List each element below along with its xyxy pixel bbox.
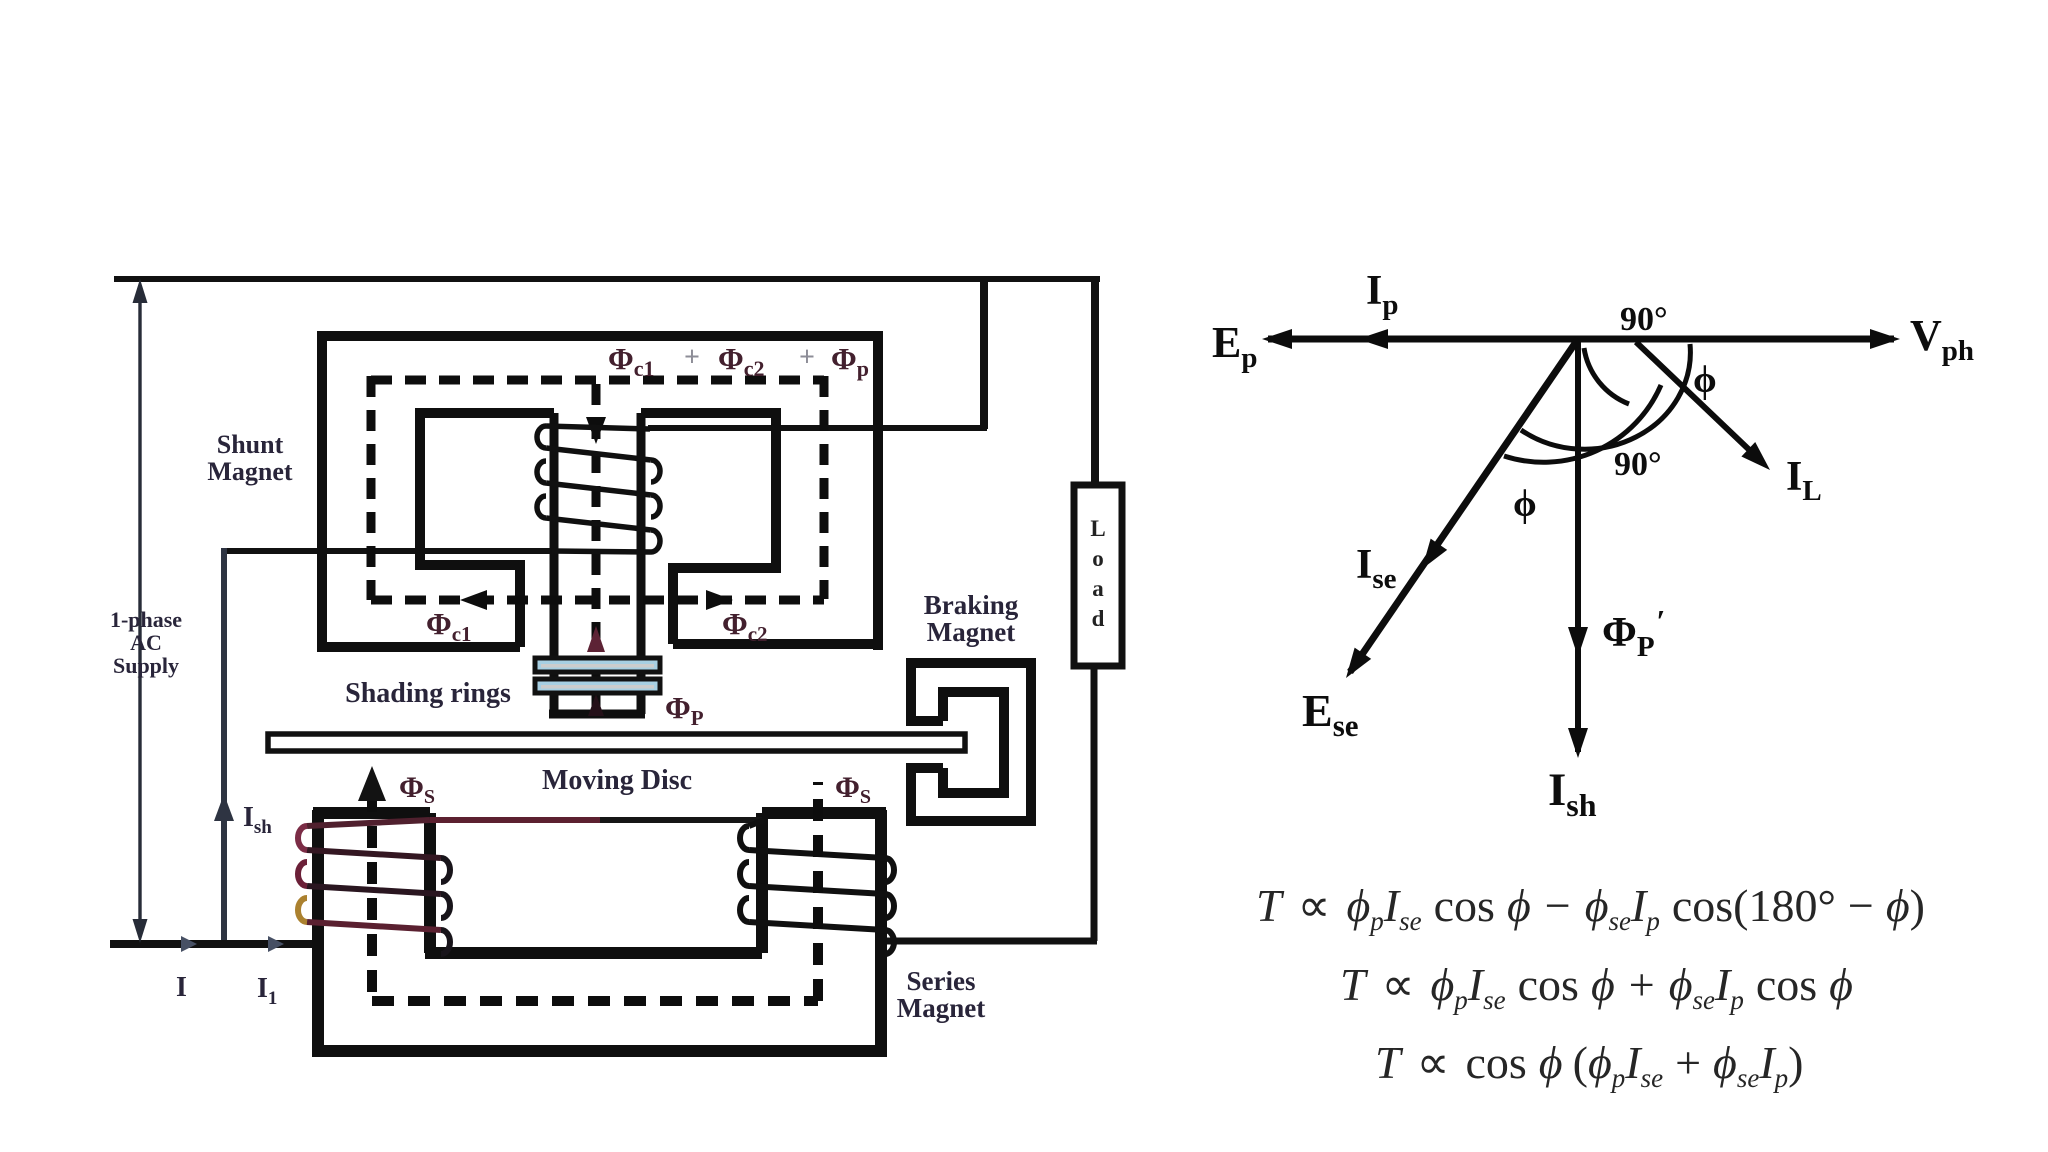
series magnet window right edge — [756, 813, 768, 953]
wire load bottom horizontal to series coil — [877, 938, 1097, 945]
svg-text:Shunt: Shunt — [217, 430, 284, 459]
shunt magnet right window — [641, 413, 776, 568]
svg-text:Shading rings: Shading rings — [345, 678, 511, 709]
shunt magnet central limb right edge — [637, 413, 646, 714]
shunt magnet left window — [420, 413, 554, 565]
svg-text:Ep: Ep — [1212, 318, 1258, 374]
shading ring lower — [535, 679, 660, 693]
arrow Ish on shunt branch — [214, 794, 234, 821]
SERIES COIL LEFT — [298, 820, 450, 954]
arrow Ep — [1262, 329, 1292, 349]
braking magnet outer core — [911, 663, 1031, 821]
phasor angle arc outer (Vph to Ise) — [1521, 344, 1690, 449]
svg-text:Vph: Vph — [1910, 311, 1974, 367]
svg-text:Magnet: Magnet — [897, 993, 985, 1023]
svg-text:ΦP′: ΦP′ — [1602, 603, 1666, 663]
svg-text:d: d — [1092, 606, 1105, 631]
shunt magnet outer core left/top/right — [322, 336, 878, 651]
series coil right right-arcs — [885, 858, 894, 882]
svg-text:90°: 90° — [1614, 446, 1662, 483]
svg-text:Φp: Φp — [831, 341, 869, 381]
phasor vertical phi_p' / Ish — [1575, 341, 1581, 752]
series magnet window bottom edge — [425, 947, 762, 959]
arrow I1 on bottom bus — [268, 936, 284, 952]
series magnet left limb top — [313, 807, 430, 819]
arrow flux phi_p down — [586, 417, 606, 444]
svg-text:IL: IL — [1786, 454, 1822, 507]
shunt magnet left window notch — [515, 560, 525, 647]
arrow IL — [1741, 442, 1777, 477]
shunt magnet outer core bottom-left segment — [317, 642, 520, 652]
svg-text:Magnet: Magnet — [927, 617, 1015, 647]
svg-text:T∝cosϕ(ϕpIse+ϕseIp): T∝cosϕ(ϕpIse+ϕseIp) — [1375, 1037, 1804, 1093]
flux path bottom dashed horizontal — [371, 596, 824, 605]
phasor angle arc inner (IL to Ise) — [1504, 385, 1661, 462]
shunt magnet outer core bottom-right segment — [673, 639, 883, 649]
svg-text:I1: I1 — [257, 973, 277, 1009]
moving disc — [268, 734, 965, 751]
svg-text:Ish: Ish — [243, 802, 272, 838]
TORQUE EQUATIONS — [1256, 880, 1925, 1093]
arrow flux phi_c1 (left) — [460, 590, 487, 610]
wire shunt branch horizontal — [222, 548, 552, 554]
svg-text:Φc1: Φc1 — [426, 606, 472, 646]
pressure coil diagonals — [546, 426, 650, 429]
svg-text:Ish: Ish — [1548, 764, 1597, 823]
arrow Ish down — [1568, 728, 1588, 758]
wire bottom supply bus — [110, 940, 322, 948]
series coil left right-arcs — [441, 858, 450, 882]
svg-text:a: a — [1092, 576, 1104, 601]
arrow phi_p' down — [1568, 627, 1588, 657]
shading ring upper — [535, 658, 660, 672]
braking magnet slot stubs — [906, 716, 943, 726]
svg-text:Supply: Supply — [113, 653, 179, 678]
shunt magnet pole face bottom bar — [549, 710, 645, 719]
wire top supply bus — [114, 276, 1100, 282]
svg-text:ϕ: ϕ — [1513, 483, 1537, 525]
svg-text:Φc2: Φc2 — [718, 341, 764, 381]
PRESSURE COIL on central limb — [537, 426, 660, 552]
SHADING RINGS — [535, 658, 660, 693]
arrow flux up below pole — [588, 694, 604, 716]
phasor Ise / Ese line — [1350, 339, 1578, 672]
svg-text:+: + — [799, 342, 815, 373]
svg-text:o: o — [1092, 546, 1104, 571]
SERIES MAGNET — [313, 810, 886, 1051]
LEFT DIAGRAM TEXT LABELS — [110, 430, 1019, 1023]
svg-text:Magnet: Magnet — [207, 457, 293, 486]
arrow Ese — [1338, 648, 1371, 684]
series magnet outer core — [318, 810, 881, 1051]
flux path right dashed vertical — [820, 376, 829, 599]
svg-text:Braking: Braking — [924, 590, 1019, 620]
wire drop from top bus to pressure coil — [980, 276, 988, 429]
flux path phi_p central dashed vertical — [592, 384, 601, 712]
phasor horizontal axis Ep-Vph — [1268, 336, 1894, 343]
svg-text:AC: AC — [130, 630, 162, 655]
SERIES COIL RIGHT — [740, 820, 894, 954]
flux path phi_c1+c2+p top dashed — [371, 376, 824, 385]
1-phase AC supply dimension line — [133, 279, 148, 943]
svg-text:Ip: Ip — [1366, 268, 1399, 321]
arrow I on bottom bus — [181, 936, 197, 952]
svg-text:90°: 90° — [1620, 301, 1668, 338]
svg-text:I: I — [176, 972, 187, 1003]
LOAD BOX — [1074, 485, 1122, 666]
svg-text:ΦS: ΦS — [835, 771, 871, 808]
arrow Ip — [1358, 329, 1388, 349]
svg-text:ΦS: ΦS — [399, 771, 435, 808]
FLUX DASHED PATHS (shunt) — [371, 376, 824, 712]
pressure coil bottom lead — [552, 551, 651, 552]
series magnet window left edge — [424, 813, 436, 953]
svg-text:Ise: Ise — [1356, 542, 1397, 595]
flux path series bottom dashed horizontal — [372, 996, 818, 1006]
svg-text:L: L — [1090, 516, 1105, 541]
pressure coil left arcs — [537, 426, 546, 448]
BRAKING MAGNET — [906, 663, 1031, 821]
svg-text:Series: Series — [907, 966, 976, 996]
pressure coil right arcs — [651, 460, 660, 482]
phasor IL line — [1636, 342, 1762, 462]
arrow Ise — [1414, 539, 1447, 575]
svg-text:T∝ϕpIsecosϕ−ϕseIpcos(180°−ϕ): T∝ϕpIsecosϕ−ϕseIpcos(180°−ϕ) — [1256, 880, 1925, 936]
svg-text:ϕ: ϕ — [1693, 359, 1717, 401]
svg-text:Ese: Ese — [1302, 685, 1359, 743]
shunt magnet right window notch — [668, 563, 678, 644]
svg-text:Moving Disc: Moving Disc — [542, 765, 692, 796]
flux path left dashed vertical — [367, 376, 376, 600]
wire series coils connecting lead — [430, 817, 600, 823]
arrow flux up (maroon) above shading rings — [587, 626, 605, 652]
phasor small arc near origin — [1584, 348, 1629, 404]
shunt magnet central limb left edge — [550, 413, 559, 714]
svg-text:ΦP: ΦP — [665, 690, 704, 730]
series coil left arcs (colored) — [298, 826, 307, 850]
PHASOR DIAGRAM — [1268, 339, 1894, 752]
SHUNT MAGNET — [317, 336, 883, 714]
wire shunt branch vertical (Ish) — [221, 548, 227, 944]
arrow flux phi_c2 (right) — [706, 590, 733, 610]
braking magnet inner pole — [943, 692, 1004, 793]
flux path series right dashed vertical — [813, 782, 823, 1001]
series coil right diagonals — [749, 820, 764, 826]
arrow flux phi_s up (left) — [358, 766, 386, 801]
svg-text:1-phase: 1-phase — [110, 607, 182, 632]
wire load bottom vertical — [1091, 666, 1098, 941]
series coil left diagonals — [307, 820, 430, 826]
series magnet right limb top — [762, 807, 886, 819]
wire right drop to load — [1091, 276, 1099, 486]
FLUX DASHED PATH (series, phi_s) — [372, 782, 818, 1001]
series coil right left-arcs — [740, 826, 749, 850]
svg-text:T∝ϕpIsecosϕ+ϕseIpcosϕ: T∝ϕpIsecosϕ+ϕseIpcosϕ — [1340, 959, 1853, 1015]
svg-text:Φc1: Φc1 — [608, 341, 654, 381]
wire pressure coil top lead — [648, 425, 987, 431]
flux path series left dashed vertical — [367, 790, 377, 1001]
svg-text:+: + — [684, 342, 700, 373]
svg-text:Φc2: Φc2 — [722, 606, 768, 646]
arrow Vph — [1870, 329, 1900, 349]
